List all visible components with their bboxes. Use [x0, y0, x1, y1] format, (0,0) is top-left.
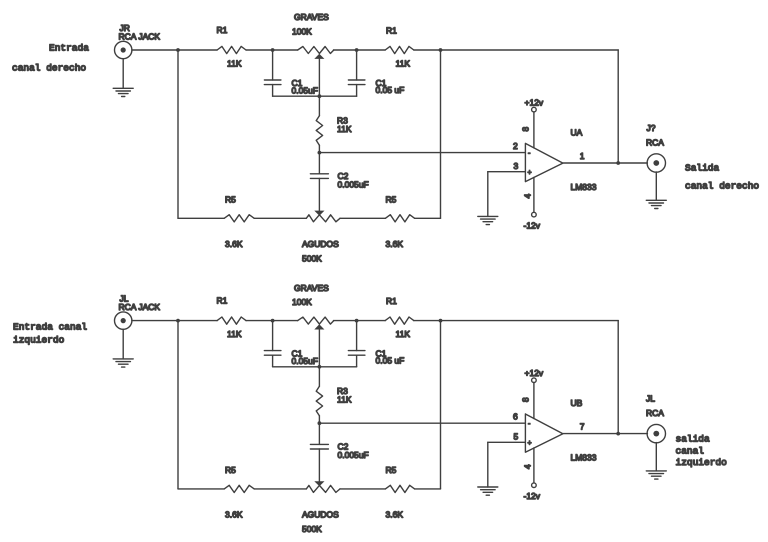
resistor R1 left (11K) (ch B) — [217, 296, 247, 340]
wire: bottom rail segments — [178, 217, 441, 219]
ground (input jack JR) — [113, 59, 133, 97]
wire: cap rail joining C1 bottoms and bass wiper — [273, 95, 357, 97]
capacitor C1 left (0.05uF) (ch B) — [264, 321, 318, 367]
wire: node C (ch B) down to bottom rail — [440, 321, 442, 489]
svg-text:0.05uF: 0.05uF — [292, 85, 318, 95]
svg-text:canal: canal — [676, 446, 705, 457]
node A (ch B) junction — [176, 319, 180, 323]
wire: R1 to bass pot left node — [246, 320, 273, 322]
potentiometer AGUDOS 500K (ch B) — [302, 481, 340, 534]
svg-text:R1: R1 — [386, 296, 397, 306]
capacitor C2 (0.005uF) (ch B) — [310, 423, 368, 481]
op-amp UB (LM833) — [525, 398, 596, 463]
resistor R1 right (11K) (ch A) — [385, 26, 414, 69]
text: output description Salida canal derecho — [685, 163, 759, 192]
wire: node A (ch B) down to bottom rail — [177, 321, 179, 489]
wire: bass-right node to R1 right — [357, 320, 386, 322]
wire: node A (ch B) to R1 — [178, 320, 217, 322]
svg-text:3.6K: 3.6K — [386, 510, 404, 520]
svg-text:3: 3 — [514, 161, 519, 171]
svg-text:0.005uF: 0.005uF — [338, 179, 369, 189]
svg-text:Salida: Salida — [685, 163, 720, 174]
wire: node C to feedback node — [441, 320, 619, 322]
svg-text:11K: 11K — [227, 329, 242, 339]
svg-text:11K: 11K — [396, 329, 411, 339]
svg-text:UA: UA — [571, 128, 583, 138]
text: input description Entrada canal izquierdo — [13, 322, 87, 346]
node A (ch A) junction — [176, 48, 180, 52]
svg-text:R5: R5 — [225, 465, 236, 475]
svg-text:100K: 100K — [292, 297, 312, 307]
capacitor C1 right (0.05 uF) (ch B) — [348, 321, 404, 367]
svg-text:canal derecho: canal derecho — [685, 181, 759, 192]
svg-text:RCA JACK: RCA JACK — [119, 302, 161, 312]
svg-text:R5: R5 — [386, 195, 397, 205]
wire: node C (ch A) down to bottom rail — [440, 50, 442, 218]
svg-text:izquierdo: izquierdo — [13, 335, 65, 346]
text: input description Entrada canal derecho — [12, 43, 89, 74]
wire: R1 right to node C — [414, 49, 441, 51]
svg-text:3.6K: 3.6K — [386, 239, 404, 249]
svg-text:AGUDOS: AGUDOS — [302, 239, 339, 249]
svg-text:GRAVES: GRAVES — [294, 283, 329, 293]
V+ supply +12v terminal for UB — [525, 368, 544, 419]
ground (input jack JL) — [113, 329, 133, 367]
wire: pot to bass-right node — [334, 320, 357, 322]
capacitor C1 left (0.05uF) (ch A) — [264, 50, 318, 96]
node output (ch B) junction — [616, 432, 620, 436]
svg-text:GRAVES: GRAVES — [294, 12, 329, 22]
svg-text:3.6K: 3.6K — [225, 510, 243, 520]
text: output description salida canal izquierdo — [676, 434, 728, 469]
wire: node A (ch A) down to bottom rail — [177, 50, 179, 218]
svg-text:-12v: -12v — [524, 221, 541, 231]
node C (ch A) junction — [439, 48, 443, 52]
node bass-left (ch A) junction — [271, 48, 275, 52]
resistor R1 left (11K) (ch A) — [217, 25, 247, 69]
resistor R3 (11K) (ch A) — [316, 96, 352, 152]
ground (output jack JL) — [646, 443, 666, 480]
wire: op-amp output pin 1 to output jack — [563, 162, 647, 164]
svg-text:8: 8 — [521, 397, 531, 402]
node bass-right (ch B) junction — [355, 319, 359, 323]
node wiper (ch B) junction on cap rail — [318, 365, 322, 369]
ground (op-amp UA non-inverting input) — [478, 215, 498, 217]
svg-text:izquierdo: izquierdo — [676, 457, 728, 468]
wire: non-inverting input pin 5 to ground — [488, 442, 526, 487]
resistor R5 left (3.6K) (ch B) — [224, 465, 254, 519]
wire: bass-left node to pot — [273, 49, 298, 51]
svg-text:2: 2 — [513, 141, 518, 151]
connector J? (output RCA jack) — [646, 123, 666, 172]
wire: non-inverting input pin 3 to ground — [488, 172, 526, 217]
V+ supply +12v terminal for UA — [525, 97, 544, 148]
svg-text:500K: 500K — [302, 253, 322, 263]
V- supply -12v terminal for UB — [524, 448, 541, 501]
wire: bass-left node to pot — [273, 320, 298, 322]
svg-text:6: 6 — [513, 411, 518, 421]
svg-text:canal derecho: canal derecho — [12, 63, 86, 74]
ground (output jack J?) — [646, 172, 666, 209]
wire: R1 to bass pot left node — [246, 49, 273, 51]
ground (op-amp UB non-inverting input) — [478, 486, 498, 488]
wire: node C to feedback node — [441, 49, 619, 51]
svg-text:+12v: +12v — [525, 97, 544, 107]
svg-text:5: 5 — [514, 431, 519, 441]
svg-text:3.6K: 3.6K — [225, 239, 243, 249]
potentiometer AGUDOS 500K (ch A) — [302, 211, 340, 264]
svg-text:RCA: RCA — [646, 408, 664, 418]
svg-text:7: 7 — [580, 421, 585, 431]
connector JL (output RCA jack) — [646, 394, 666, 443]
svg-text:-12v: -12v — [524, 491, 541, 501]
resistor R5 right (3.6K) (ch A) — [385, 195, 414, 250]
svg-text:JL: JL — [646, 394, 655, 404]
resistor R1 right (11K) (ch B) — [385, 296, 414, 339]
svg-text:500K: 500K — [302, 524, 322, 534]
wire: R1 right to node C — [414, 320, 441, 322]
wire: jack JL to node A (ch B) — [132, 320, 178, 322]
resistor R5 left (3.6K) (ch A) — [224, 195, 254, 250]
wire: feedback from output node up to node C net — [617, 321, 619, 434]
svg-text:0.05 uF: 0.05 uF — [376, 356, 405, 366]
svg-text:11K: 11K — [396, 59, 411, 69]
svg-text:4: 4 — [523, 464, 533, 469]
wire: node A (ch A) to R1 — [178, 49, 217, 51]
svg-text:LM833: LM833 — [571, 182, 597, 192]
wire: cap rail joining C1 bottoms and bass wiper — [273, 366, 357, 368]
wire: feedback from output node up to node C net — [617, 50, 619, 163]
svg-text:0.05 uF: 0.05 uF — [376, 85, 405, 95]
svg-text:LM833: LM833 — [571, 453, 597, 463]
node bass-right (ch A) junction — [355, 48, 359, 52]
node B (ch B) junction (inverting input net) — [318, 421, 322, 425]
svg-text:11K: 11K — [337, 124, 352, 134]
node bass-left (ch B) junction — [271, 319, 275, 323]
wire: node B (ch A) to op-amp inverting input — [319, 152, 525, 154]
svg-text:R1: R1 — [386, 26, 397, 36]
svg-text:AGUDOS: AGUDOS — [302, 510, 339, 520]
svg-text:1: 1 — [580, 151, 585, 161]
V- supply -12v terminal for UA — [524, 177, 541, 230]
svg-text:100K: 100K — [292, 27, 312, 37]
svg-text:R1: R1 — [217, 25, 228, 35]
node B (ch A) junction (inverting input net) — [318, 151, 322, 155]
svg-text:+: + — [528, 170, 532, 177]
potentiometer GRAVES 100K (ch A) — [292, 12, 334, 96]
svg-text:R1: R1 — [217, 296, 228, 306]
node C (ch B) junction — [439, 319, 443, 323]
svg-text:Entrada: Entrada — [49, 43, 89, 54]
op-amp UA (LM833) — [525, 128, 596, 193]
svg-text:0.05uF: 0.05uF — [292, 356, 318, 366]
svg-text:RCA JACK: RCA JACK — [119, 32, 161, 42]
svg-text:R5: R5 — [386, 465, 397, 475]
resistor R3 (11K) (ch B) — [316, 367, 352, 423]
svg-text:salida: salida — [676, 434, 711, 445]
svg-text:11K: 11K — [337, 395, 352, 405]
capacitor C2 (0.005uF) (ch A) — [310, 153, 368, 211]
svg-text:11K: 11K — [227, 59, 242, 69]
wire: op-amp output pin 7 to output jack — [563, 433, 647, 435]
capacitor C1 right (0.05 uF) (ch A) — [348, 50, 404, 96]
wire: bass-right node to R1 right — [357, 49, 386, 51]
svg-text:8: 8 — [521, 127, 531, 132]
resistor R5 right (3.6K) (ch B) — [385, 465, 414, 519]
node wiper (ch A) junction on cap rail — [318, 94, 322, 98]
connector JR (input RCA jack) — [115, 23, 161, 59]
wire: bottom rail segments — [178, 488, 441, 490]
svg-text:+: + — [528, 440, 532, 447]
svg-text:Entrada canal: Entrada canal — [13, 322, 87, 333]
svg-text:0.005uF: 0.005uF — [338, 450, 369, 460]
connector JL (input RCA jack) — [115, 294, 161, 330]
svg-text:R5: R5 — [225, 195, 236, 205]
wire: jack JR to node A (ch A) — [132, 49, 178, 51]
svg-text:+12v: +12v — [525, 368, 544, 378]
svg-text:UB: UB — [571, 398, 583, 408]
potentiometer GRAVES 100K (ch B) — [292, 283, 334, 367]
wire: pot to bass-right node — [334, 49, 357, 51]
svg-text:J?: J? — [647, 123, 656, 133]
wire: node B (ch B) to op-amp inverting input — [319, 422, 525, 424]
svg-text:4: 4 — [523, 194, 533, 199]
node output (ch A) junction — [616, 161, 620, 165]
svg-text:RCA: RCA — [646, 138, 664, 148]
